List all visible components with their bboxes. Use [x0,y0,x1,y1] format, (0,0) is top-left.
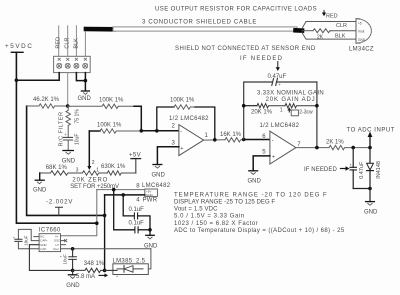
net tick -2.002V [56,207,63,215]
resistor 100K input [68,104,134,108]
wire +5 riser to IC7660 [61,190,97,236]
wire bypass cap 1 (V-) [123,195,134,216]
arrow IF NEEDED right [341,168,346,170]
power +5VDC bar [11,51,23,53]
wire pin8 +5V row [97,189,145,191]
wire BLK to sensor [302,33,356,40]
ground (U2 pin5) [249,170,258,172]
wire U2 feedback left riser [244,82,273,140]
wire pin5 to ground [253,156,270,171]
resistor 2K [313,29,331,33]
wire BLK conductor into connector [75,26,77,57]
svg-text:GND: GND [358,38,366,42]
svg-text:100K 1%: 100K 1% [97,122,122,128]
svg-text:2-3cw: 2-3cw [299,110,313,116]
wire CLR conductor into connector [67,26,69,57]
wire feedback up left [157,107,174,131]
svg-text:5.8 mA: 5.8 mA [76,274,95,280]
connector terminal block [54,56,91,72]
svg-text:CLR: CLR [65,38,71,49]
svg-text:3: 3 [76,168,79,174]
svg-text:+5V: +5V [129,152,141,158]
ground (connector shield) [81,90,89,92]
svg-text:+: + [272,154,275,160]
wire pin3 to ground [157,147,179,165]
potentiometer 20K ZERO [70,171,107,175]
svg-text:5.0 / 1.5V = 3.33 Gain: 5.0 / 1.5V = 3.33 Gain [174,214,245,220]
svg-text:GND: GND [33,188,47,194]
power box U1/U2 [145,189,158,196]
svg-text:RED: RED [326,13,338,19]
svg-text:1/2 LMC6482: 1/2 LMC6482 [260,123,300,129]
diode IN4148 [369,148,371,164]
node bottom [368,187,372,191]
wire 16K to U2 pin6 [244,139,270,141]
svg-text:68K 1%: 68K 1% [46,165,68,171]
resistor 46.2K [27,104,68,108]
svg-text:0.1uF: 0.1uF [129,221,145,227]
svg-text:LM34CZ: LM34CZ [349,46,374,52]
wire connector pin3 to shield node [76,73,85,91]
svg-text:-: - [180,129,182,135]
node U1 out / feedback [213,138,217,142]
svg-text:IN4148: IN4148 [376,161,382,179]
node bypass ground [148,228,152,232]
svg-text:IF NEEDED: IF NEEDED [240,56,283,62]
wire shield drain into connector [84,31,86,56]
svg-text:348 1%: 348 1% [84,261,105,267]
wire bypass cap 2 (+5) [114,190,135,230]
svg-text:2K: 2K [317,35,324,41]
resistor 2K output [329,145,370,149]
shielded cable shield body [113,27,297,31]
svg-text:+: + [278,82,281,87]
node gain row right [315,104,319,108]
svg-text:1: 1 [96,168,99,174]
svg-text:GND: GND [62,158,76,164]
svg-text:Vout = 1.5 VDC: Vout = 1.5 VDC [174,207,218,213]
resistor 16K [225,138,244,142]
svg-text:BLK: BLK [335,33,346,39]
svg-text:GND: GND [152,172,166,178]
node gain row left [242,104,246,108]
node 100K junction pin2 [140,129,144,133]
svg-text:10uF: 10uF [24,235,29,246]
node GND row [71,269,75,273]
svg-text:CAP-: CAP- [40,247,47,251]
text block notes [174,192,345,234]
svg-text:-: - [272,138,274,144]
node output/feedback [315,146,319,150]
wire 7660 Vout (-5V) row [61,248,151,250]
svg-text:DISPLAY RANGE -25 TO 125 DEG F: DISPLAY RANGE -25 TO 125 DEG F [174,200,275,206]
wire 7660 GND pin to rail [29,245,72,271]
capacitor 10uF R/C [63,137,72,140]
svg-text:RED: RED [56,37,62,49]
svg-text:75 1%: 75 1% [74,109,80,124]
svg-text:TEMPERATURE RANGE -20 TO 120: TEMPERATURE RANGE -20 TO 120 DEG F [174,192,328,198]
svg-text:0.1uF: 0.1uF [129,207,145,213]
power +5V bar [131,158,141,160]
svg-text:IC7660: IC7660 [39,227,61,233]
capacitor 0.47uF feedback [272,79,278,86]
resistor 630K [101,171,136,175]
svg-text:0.47uF: 0.47uF [268,74,287,80]
potentiometer 20K GAIN [285,104,317,108]
wire shield to ground [84,73,86,91]
node R/C filter junction [66,104,70,108]
diode LM385 box [113,264,148,275]
svg-text:+5VDC: +5VDC [5,43,33,50]
node bypass tap 2 [121,193,125,197]
node feedback tap [155,129,159,133]
svg-text:20K ZERO: 20K ZERO [72,178,108,184]
capacitor 0.47uF output [352,148,354,168]
shielded cable left black end [86,27,114,32]
svg-text:BLK: BLK [74,38,80,49]
resistor 68K [40,171,70,175]
svg-text:GND: GND [78,96,92,102]
sensor LM34CZ body [355,19,357,43]
wire pin4 V- row [105,194,145,196]
IC7660 pin stubs [34,237,67,245]
svg-text:2K 1%: 2K 1% [326,140,344,146]
svg-text:630K 1%: 630K 1% [101,164,126,170]
arrow current [99,274,105,276]
svg-text:GND: GND [248,179,262,185]
wire into LM385 [105,269,117,271]
wire gain row left [244,105,257,107]
svg-text:16K 1%: 16K 1% [220,132,242,138]
node +5 feed [95,221,99,225]
svg-text:GND: GND [364,209,378,215]
wire 100K to pin2 corner [134,106,141,131]
wire LM385 to -5V [148,249,151,269]
capacitor 0.1uF (V-) [134,213,137,219]
wire 630K to +5V [135,159,137,173]
wire 68K to ground [39,173,41,180]
svg-text:Vout: Vout [53,247,59,251]
wire RED to sensor [302,22,356,40]
svg-text:GND: GND [146,193,154,197]
svg-text:USE OUTPUT RESISTOR FOR CAPACI: USE OUTPUT RESISTOR FOR CAPACITIVE LOADS [155,6,317,12]
arrow to ADC input [369,137,371,148]
ground (VEE filter) [72,270,74,274]
ground (U1 pin3) [153,164,162,166]
svg-text:1/2 LMC6482: 1/2 LMC6482 [169,116,209,122]
svg-text:GND: GND [66,283,80,289]
svg-text:10uF: 10uF [63,254,68,265]
resistor 100K feedback [174,105,195,109]
svg-text:2: 2 [92,160,95,166]
node bypass tap [112,188,116,192]
svg-text:SHIELD NOT CONNECTED AT SENSOR: SHIELD NOT CONNECTED AT SENSOR END [175,46,316,52]
wire CLR 2K to sensor [330,30,356,32]
svg-text:+5: +5 [358,21,362,25]
node ADC output [368,146,372,150]
wire connector pin1 to +5VDC rail [16,73,59,81]
node -2.002V / pin4 riser [103,214,107,218]
svg-text:20K 1%: 20K 1% [251,109,273,115]
node 10uF tap [71,247,75,251]
svg-text:Vout: Vout [358,30,364,34]
resistor 348 [73,268,105,272]
node -2.002V source [103,269,107,273]
resistor 100K offset [89,130,100,132]
svg-text:+: + [180,146,183,152]
wire U1 output [204,139,225,141]
svg-text:PWR: PWR [143,198,158,204]
connector screw terminals [57,63,88,68]
svg-text:1023 / 150 = 6.82 X Factor: 1023 / 150 = 6.82 X Factor [174,221,258,227]
svg-text:1: 1 [280,108,283,114]
wire cap to right riser [277,81,317,83]
resistor 75 vertical [66,106,70,137]
wire cap to ground [67,140,69,150]
wire to ground [369,189,371,202]
capacitor 10uF (-5V) [72,249,74,257]
ground (R/C filter) [63,150,73,152]
svg-text:TO ADC INPUT: TO ADC INPUT [347,127,396,133]
wire +5VDC rail down and right [16,52,96,223]
svg-text:IF NEEDED: IF NEEDED [304,167,337,173]
svg-text:0.47uF: 0.47uF [359,161,365,179]
ground (ADC clamp) [366,201,375,203]
wire feedback down to output [195,107,215,140]
ground (bypass) [146,234,154,236]
shielded cable right black end [296,28,303,33]
wire U2 output row [296,147,329,149]
wire 46.2K offset vertical to -2.002V rail [27,106,105,215]
svg-text:3 CONDUCTOR SHIELDED CABLE: 3 CONDUCTOR SHIELDED CABLE [142,19,257,25]
wire pin4 riser to -2.002V [104,195,106,271]
ground (68K) [35,179,44,181]
svg-text:-2.002V: -2.002V [46,200,73,206]
svg-text:10uF: 10uF [74,134,80,145]
capacitor 10uF (7660 loop) [18,229,39,240]
node cap branch [351,146,355,150]
arrow to 2K resistor [323,11,325,13]
wire cap/diode bottom row [353,188,370,190]
wire CLR to 2K [302,30,313,32]
arrow IF NEEDED to 0.47uF [277,62,279,68]
resistor 20K 1% [257,104,285,108]
diode LM385 symbol [117,268,143,270]
pot wiper arrow [88,131,90,167]
IC U3 7660 box [39,234,60,252]
svg-text:R/C FILTER: R/C FILTER [59,111,65,146]
wire U2 feedback right riser [316,82,318,148]
svg-text:LMC6482: LMC6482 [142,183,171,189]
svg-text:CLR: CLR [336,23,347,29]
svg-text:+: + [64,132,67,137]
capacitor 0.1uF (+5) [135,227,138,233]
pot gain wiper box [291,110,298,116]
wire connector pin2 signal down [67,73,69,106]
node shield/pin3 junction [84,79,88,83]
svg-text:100K 1%: 100K 1% [99,97,124,103]
svg-text:46.2K 1%: 46.2K 1% [33,97,60,103]
svg-text:3.33X NOMINAL GAIN: 3.33X NOMINAL GAIN [257,91,324,97]
wire RED conductor into connector [59,26,86,57]
svg-text:100K 1%: 100K 1% [170,98,195,104]
svg-text:20K GAIN ADJ: 20K GAIN ADJ [266,97,316,103]
node U2 inverting [242,138,246,142]
wire pin2 row into op-amp U1 [141,130,179,132]
svg-text:ADC to Temperature Display = (: ADC to Temperature Display = ((ADCout + … [174,228,345,234]
pot gain wiper arrow [288,110,290,112]
node pin1/+5 junction [15,78,19,82]
